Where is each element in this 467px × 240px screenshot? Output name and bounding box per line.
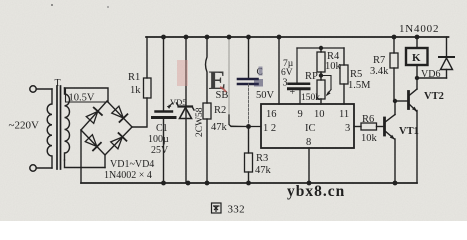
pin8 wire [308,148,310,183]
caption 图 332 [212,203,222,213]
wire bridge bottom corner to AC wire [104,155,106,168]
10.5V annotation box [66,88,108,102]
wire bridge minus to bottom bus [80,130,82,183]
watermark pink smudge [177,60,188,86]
transformer secondary winding [65,88,70,160]
pushbutton SB wire with slight kink [206,37,208,103]
capacitor C3 7u6V [296,48,298,83]
resistor R4 [320,48,322,52]
junction dots top bus [161,35,419,186]
resistor R3 [248,127,250,154]
wire secondary bottom to bridge AC node [65,160,106,168]
diode VD4 [110,133,126,149]
pin16 wire / +V feeder [278,37,280,104]
IC box [261,104,354,148]
node VT1c/VT2b [395,100,409,102]
capacitor C1 [163,37,165,111]
transistor VT2 [407,92,410,109]
relay K [406,48,428,65]
sub rail [297,47,344,49]
terminal top [30,86,36,92]
transistor VT1 [383,118,386,135]
wire terminal top to primary [36,88,52,90]
top bus [146,36,449,38]
diode VD3 [85,134,101,150]
other junction dots [319,73,323,77]
bottom bus [81,182,417,184]
wire terminal bottom to primary [36,167,52,169]
transformer T primary winding [47,89,52,168]
watermark blue mark [254,79,263,87]
resistor R5 [343,48,345,65]
resistor R2 [203,103,211,119]
wire bridge plus to R1 [132,98,147,127]
bridge diamond wires [81,101,132,130]
junction dots bottom bus [161,181,166,186]
capacitor C 50V [248,37,250,78]
diode VD1 [86,108,102,124]
zener diode VD5 2CW58 [185,37,187,183]
wire secondary top to bridge [65,88,109,102]
potentiometer RP 150k [317,80,325,99]
wire bus to pin12 node (faint) [229,37,249,127]
transformer core [56,86,58,169]
wire R1 top to bus [146,37,148,78]
resistor R7 [393,37,395,53]
resistor R1 [144,78,152,98]
diode VD2 [111,106,127,122]
pin3 wire + resistor R6 [354,126,361,128]
terminal bottom [30,165,36,171]
diode VD6 [446,70,448,79]
scan artifacts [51,4,53,6]
